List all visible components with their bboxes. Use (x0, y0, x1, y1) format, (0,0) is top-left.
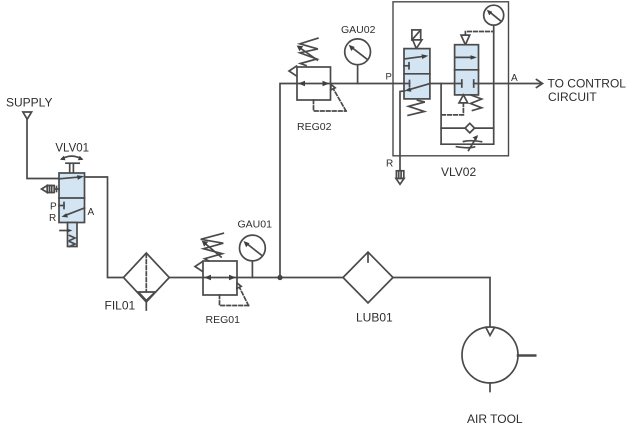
REG01 relief arrowhead (237, 283, 241, 289)
wire VLV02 left branch of flow control loop (440, 84, 442, 145)
VLV01 detent stem below (60, 223, 77, 247)
svg-text:A: A (88, 207, 95, 218)
VLV02 R silencer (396, 171, 404, 185)
svg-text:R: R (49, 213, 56, 224)
wire A output to control circuit (508, 80, 542, 88)
valve assembly VLV02 enclosure box (393, 2, 509, 156)
VLV01 exhaust port with silencer (left) (42, 186, 60, 193)
VLV01 stem with T-cap (66, 163, 79, 173)
gauge GAU01 stem (251, 261, 253, 278)
VLV02 left valve return spring (408, 100, 425, 115)
wire VLV02 R exhaust (400, 91, 405, 171)
lubricator LUB01 body (343, 252, 393, 303)
REG01 adjustment spring (195, 233, 223, 271)
air tool bottom stub (489, 383, 491, 392)
wire VLV02 internal A line (430, 83, 455, 85)
supply source triangle (23, 112, 32, 119)
wire REG01 to LUB01 (237, 277, 343, 279)
wire gauge down to flow control loop (493, 25, 495, 144)
svg-text:GAU02: GAU02 (341, 24, 376, 36)
VLV02 left valve top flow arrow (405, 54, 428, 59)
junction node dot (277, 275, 282, 280)
REG01 through-flow line with arrows (203, 275, 237, 280)
REG02 through-flow line with arrows (297, 81, 331, 86)
FIL01 dashed centerline (145, 254, 147, 291)
REG02 dashed relief path (314, 87, 347, 112)
regulator REG02 body (297, 67, 331, 100)
wire LUB01 to air tool (393, 278, 490, 328)
gauge GAU02 (345, 39, 371, 65)
adjustable flow restrictor (457, 135, 482, 151)
wire junction up to REG02 (280, 84, 297, 278)
gauge GAU02 stem (357, 65, 359, 84)
FIL01 drain line (145, 302, 147, 310)
svg-text:AIR TOOL: AIR TOOL (467, 412, 523, 426)
VLV01 P blocked port stub (59, 203, 64, 209)
VLV02 pilot triangle above left valve (413, 40, 422, 49)
svg-text:CIRCUIT: CIRCUIT (548, 90, 597, 104)
VLV02 right valve body (455, 45, 479, 95)
svg-text:P: P (50, 202, 57, 213)
VLV02 left valve top blocked stub (404, 63, 409, 69)
VLV02 pilot valve solenoid box (412, 30, 421, 40)
VLV02 right valve spring below (471, 95, 482, 111)
VLV02 left valve bottom blocked stub (404, 81, 410, 87)
VLV01 top-position flow arrow (59, 175, 84, 180)
svg-text:REG02: REG02 (297, 121, 332, 133)
svg-text:VLV01: VLV01 (55, 142, 89, 154)
VLV01 body midline (59, 197, 85, 199)
VLV02 right valve pilot triangle below (459, 95, 468, 103)
VLV02 right valve blocked stubs (455, 80, 479, 87)
FIL01 drain triangle (138, 292, 155, 301)
VLV02 dashed pilot line upper (465, 32, 493, 36)
filter FIL01 body (124, 253, 170, 302)
VLV02 left valve midline (404, 73, 430, 75)
svg-text:TO CONTROL: TO CONTROL (548, 77, 627, 91)
VLV02 dashed pilot line lower (441, 103, 463, 115)
VLV02 left valve A-to-R flow arrow (405, 84, 430, 92)
svg-text:R: R (386, 159, 393, 170)
air tool motor circle (462, 327, 518, 383)
LUB01 oil drip tick (367, 254, 369, 262)
svg-text:LUB01: LUB01 (356, 311, 393, 325)
VLV01 bottom-position flow arrow A to R (62, 208, 85, 218)
REG02 adjustment spring (289, 38, 318, 76)
air tool output shaft (518, 354, 535, 357)
wire REG02 to VLV02 P (331, 83, 405, 85)
node TO CONTROL CIRCUIT label (548, 77, 627, 105)
wire VLV01 output down to main line (85, 177, 124, 278)
VLV02 right valve midline (455, 69, 479, 71)
wire restrictor branch (441, 143, 494, 145)
VLV02 left valve body (404, 49, 430, 99)
wire check valve branch (441, 127, 494, 129)
svg-text:VLV02: VLV02 (441, 165, 476, 179)
check valve (465, 123, 474, 133)
svg-text:SUPPLY: SUPPLY (6, 95, 52, 109)
svg-text:GAU01: GAU01 (238, 219, 273, 231)
VLV02 internal gauge (484, 5, 504, 25)
REG01 dashed relief path (220, 285, 249, 306)
VLV02 right valve pilot triangle above (461, 35, 470, 45)
svg-text:P: P (386, 72, 392, 83)
VLV01 rotary actuator curved arrow (60, 156, 83, 161)
valve VLV01 body (59, 173, 85, 223)
svg-text:A: A (511, 73, 518, 84)
wire supply to VLV01 (27, 119, 59, 178)
air tool inlet notch (486, 327, 495, 335)
svg-text:FIL01: FIL01 (105, 299, 136, 313)
gauge GAU01 (240, 235, 266, 261)
regulator REG01 body (203, 261, 237, 295)
VLV02 right valve top flow arrow (456, 55, 477, 59)
wire FIL01 to REG01 (169, 277, 203, 279)
svg-text:REG01: REG01 (206, 314, 241, 326)
REG02 relief arrowhead (331, 85, 335, 91)
